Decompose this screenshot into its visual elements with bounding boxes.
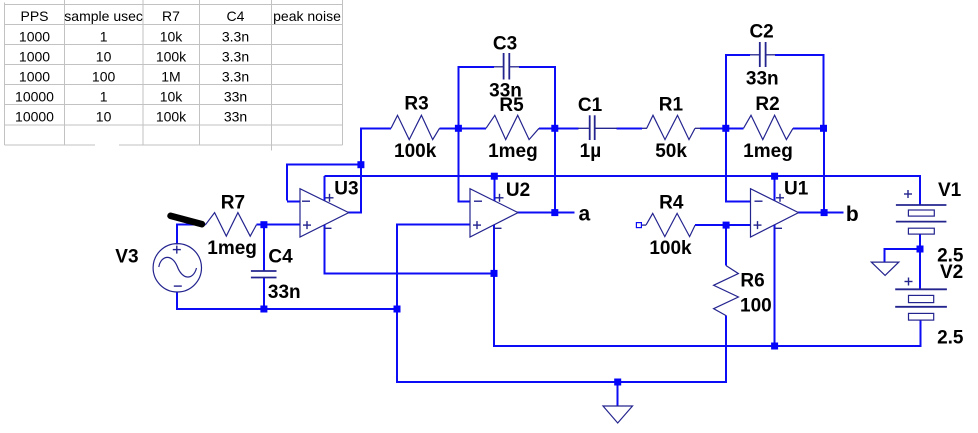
svg-text:R7: R7 xyxy=(221,192,245,213)
svg-text:10000: 10000 xyxy=(15,89,54,105)
svg-text:100k: 100k xyxy=(649,238,692,259)
svg-text:C4: C4 xyxy=(227,8,245,24)
svg-text:C3: C3 xyxy=(493,34,517,55)
svg-text:33n: 33n xyxy=(746,68,779,89)
svg-text:10: 10 xyxy=(96,109,112,125)
svg-text:V1: V1 xyxy=(938,180,962,201)
svg-text:33n: 33n xyxy=(224,109,247,125)
svg-text:1: 1 xyxy=(100,89,108,105)
svg-text:a: a xyxy=(578,202,590,225)
svg-text:3.3n: 3.3n xyxy=(222,29,249,45)
svg-text:V3: V3 xyxy=(115,246,138,267)
svg-text:100k: 100k xyxy=(394,141,437,162)
svg-text:1000: 1000 xyxy=(19,49,50,65)
svg-text:100: 100 xyxy=(740,296,772,317)
svg-text:R4: R4 xyxy=(659,193,684,214)
svg-text:33n: 33n xyxy=(224,89,247,105)
svg-text:C1: C1 xyxy=(578,95,603,116)
svg-text:U3: U3 xyxy=(334,179,358,200)
svg-text:10: 10 xyxy=(96,49,112,65)
svg-text:50k: 50k xyxy=(655,141,687,162)
svg-text:R3: R3 xyxy=(404,94,428,115)
svg-text:sample usec: sample usec xyxy=(64,8,143,24)
svg-text:PPS: PPS xyxy=(20,8,48,24)
svg-text:V2: V2 xyxy=(940,262,963,283)
svg-text:3.3n: 3.3n xyxy=(222,69,249,85)
svg-text:1M: 1M xyxy=(161,69,180,85)
svg-text:100k: 100k xyxy=(156,109,187,125)
svg-text:b: b xyxy=(846,203,859,226)
svg-text:1µ: 1µ xyxy=(580,141,602,162)
svg-text:R6: R6 xyxy=(740,271,764,292)
svg-text:1000: 1000 xyxy=(19,29,50,45)
svg-text:1meg: 1meg xyxy=(488,141,538,162)
svg-text:R7: R7 xyxy=(162,8,180,24)
svg-text:10k: 10k xyxy=(160,29,184,45)
svg-text:1meg: 1meg xyxy=(743,141,793,162)
svg-text:peak noise: peak noise xyxy=(273,8,341,24)
svg-text:1meg: 1meg xyxy=(207,238,257,259)
svg-text:2.5: 2.5 xyxy=(937,327,964,348)
svg-text:C2: C2 xyxy=(749,22,773,43)
svg-text:R1: R1 xyxy=(659,95,684,116)
svg-text:R2: R2 xyxy=(755,94,779,115)
svg-text:3.3n: 3.3n xyxy=(222,49,249,65)
svg-text:U2: U2 xyxy=(506,180,530,201)
svg-text:C4: C4 xyxy=(268,247,293,268)
svg-text:U1: U1 xyxy=(784,179,809,200)
svg-text:1: 1 xyxy=(100,29,108,45)
svg-text:10k: 10k xyxy=(160,89,184,105)
svg-text:100: 100 xyxy=(92,69,116,85)
svg-text:33n: 33n xyxy=(489,80,522,101)
svg-text:100k: 100k xyxy=(156,49,187,65)
svg-text:10000: 10000 xyxy=(15,109,54,125)
svg-text:1000: 1000 xyxy=(19,69,50,85)
svg-text:33n: 33n xyxy=(268,282,301,303)
